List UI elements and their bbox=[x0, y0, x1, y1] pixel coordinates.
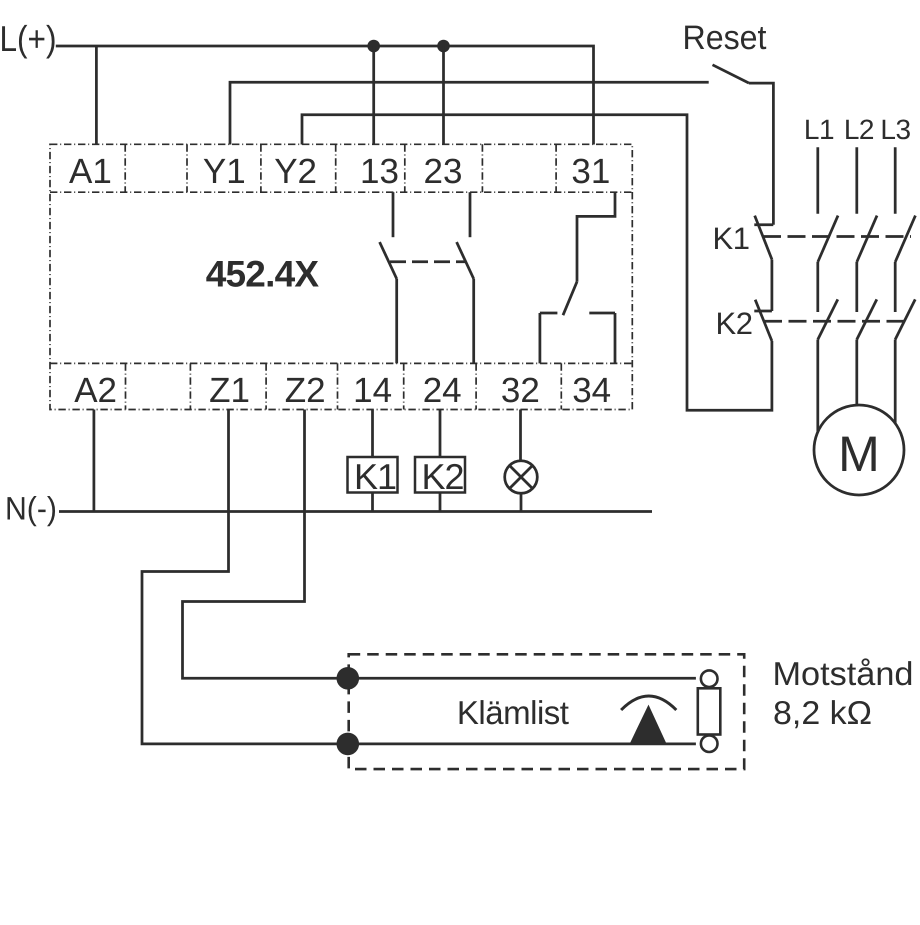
svg-text:N(-): N(-) bbox=[5, 491, 57, 527]
wire Z2 to Klamlist upper terminal bbox=[183, 410, 348, 679]
svg-text:Z1: Z1 bbox=[209, 371, 250, 410]
svg-text:Z2: Z2 bbox=[285, 371, 326, 410]
junction dot at 13 branch bbox=[367, 40, 380, 53]
wire 13 drop bbox=[372, 46, 375, 145]
wire K2 NC return to Y2 bbox=[302, 115, 772, 411]
wire N(-) rail bbox=[59, 510, 652, 513]
switch S1 Reset blade bbox=[713, 65, 750, 83]
wire L1 to motor bbox=[816, 340, 819, 436]
wire 24 to coil K2 bbox=[439, 410, 442, 458]
resistor R1 bbox=[698, 670, 721, 752]
svg-text:A1: A1 bbox=[69, 152, 112, 191]
junction dot at 23 branch bbox=[437, 40, 450, 53]
svg-text:K2: K2 bbox=[716, 306, 753, 341]
svg-text:Motstånd: Motstånd bbox=[773, 655, 914, 692]
wire L(+) rail to terminal 31 bbox=[56, 46, 594, 145]
wire lamp to N rail bbox=[520, 493, 523, 511]
relay contact linkage dashed bbox=[390, 260, 466, 263]
linkage K2 dashed bbox=[764, 320, 911, 323]
relay top row cell dividers bbox=[125, 144, 556, 192]
svg-text:A2: A2 bbox=[74, 371, 117, 410]
wire Reset to K1 NC contact bbox=[749, 83, 773, 225]
svg-text:Y2: Y2 bbox=[274, 152, 317, 191]
wire Y1 to Reset switch bbox=[230, 82, 709, 144]
svg-text:23: 23 bbox=[424, 152, 463, 191]
svg-text:K2: K2 bbox=[421, 456, 463, 497]
svg-text:L1: L1 bbox=[804, 114, 834, 145]
junction dot lower terminal bbox=[337, 733, 360, 756]
lamp H1 bbox=[505, 461, 538, 494]
wire 14 to coil K1 bbox=[371, 410, 374, 458]
relay contact 13-14 bbox=[380, 192, 397, 363]
wire phase L2 feeder bbox=[855, 147, 858, 214]
coil K1 bbox=[348, 456, 398, 497]
svg-text:32: 32 bbox=[501, 371, 540, 410]
wire 32 to lamp bbox=[519, 410, 522, 463]
svg-text:Reset: Reset bbox=[683, 19, 768, 57]
wire K1 pole3 to K2 pole3 bbox=[894, 262, 897, 312]
wire Z1 to Klamlist lower terminal bbox=[142, 410, 348, 744]
relay bottom row cell dividers bbox=[126, 363, 562, 409]
motor M1 bbox=[814, 405, 904, 495]
wire phase L1 feeder bbox=[816, 147, 819, 214]
wire 23 drop bbox=[442, 46, 445, 145]
terminal strip Klamlist dashed box bbox=[349, 654, 745, 769]
wire K1 pole2 to K2 pole2 bbox=[855, 262, 858, 312]
wire A2 to N rail bbox=[93, 410, 96, 512]
contact K2 NC (coil circuit) bbox=[754, 300, 772, 341]
svg-text:L2: L2 bbox=[844, 114, 874, 145]
contact K2 pole 3 blade bbox=[895, 299, 915, 339]
wire L3 to motor bbox=[894, 340, 897, 429]
svg-text:L3: L3 bbox=[880, 114, 910, 145]
svg-text:452.4X: 452.4X bbox=[206, 254, 320, 295]
wire A1 drop bbox=[95, 46, 98, 145]
svg-text:13: 13 bbox=[360, 152, 399, 191]
svg-text:14: 14 bbox=[353, 371, 392, 410]
contact K1 pole 3 blade bbox=[895, 216, 915, 262]
svg-text:K1: K1 bbox=[354, 456, 396, 497]
wire lower terminal to resistor bbox=[348, 743, 696, 746]
sensor arc bbox=[621, 696, 676, 710]
contact K1 NC (coil circuit) bbox=[754, 216, 773, 260]
svg-text:M: M bbox=[838, 426, 880, 482]
linkage K1 dashed bbox=[763, 235, 911, 238]
relay changeover contact 31-32-34 bbox=[540, 192, 615, 363]
coil K2 bbox=[415, 456, 465, 497]
svg-text:Klämlist: Klämlist bbox=[457, 694, 569, 731]
wire L2 to motor bbox=[855, 340, 858, 411]
wire K1 pole1 to K2 pole1 bbox=[816, 262, 819, 312]
contact K2 pole 2 blade bbox=[857, 299, 877, 339]
wire K1 NC to K2 NC bbox=[771, 259, 774, 311]
relay contact 23-24 bbox=[457, 192, 474, 363]
svg-text:24: 24 bbox=[423, 371, 462, 410]
svg-text:K1: K1 bbox=[713, 221, 750, 256]
wire upper terminal to resistor bbox=[348, 677, 696, 680]
svg-text:L(+): L(+) bbox=[0, 18, 57, 59]
contact K2 pole 1 blade bbox=[818, 299, 838, 339]
svg-text:31: 31 bbox=[571, 152, 610, 191]
junction dot upper terminal bbox=[337, 667, 360, 690]
contact K1 pole 1 blade bbox=[818, 216, 838, 262]
svg-text:Y1: Y1 bbox=[203, 152, 246, 191]
wire phase L3 feeder bbox=[894, 147, 897, 214]
wire coil K2 to N rail bbox=[439, 493, 442, 512]
svg-text:8,2 kΩ: 8,2 kΩ bbox=[773, 694, 872, 731]
relay U1 box 452.4X dash-dot outline bbox=[50, 144, 632, 409]
wire coil K1 to N rail bbox=[371, 493, 374, 512]
sensor triangle bbox=[630, 705, 667, 744]
svg-text:34: 34 bbox=[572, 371, 611, 410]
contact K1 pole 2 blade bbox=[857, 216, 877, 262]
